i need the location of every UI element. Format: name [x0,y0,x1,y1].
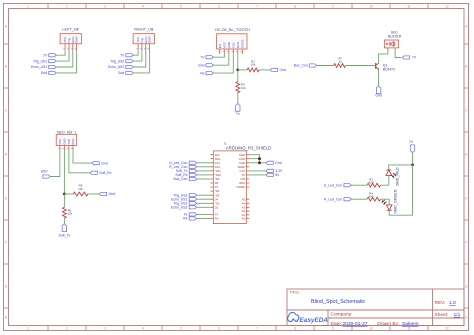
svg-text:TXD: TXD [231,43,235,49]
ARDUINO_R3_SHIELD body [213,151,246,224]
wire NEO pin3 to Soft_Rx [69,150,90,173]
svg-text:2: 2 [66,326,68,330]
net flag Trig_US2 [189,202,196,205]
svg-text:7V: 7V [43,53,48,57]
wire 5V [249,174,266,176]
wire R1 to Gnd flag [259,69,270,71]
net flag Gnd below Q1 [376,86,380,94]
svg-text:Gnd: Gnd [101,161,108,165]
wire Trig_US1 to LEFT_U$ pin2 [56,51,69,61]
bluetooth module HC-05 body [217,34,247,49]
net flag Echo_US2 [126,65,133,68]
svg-text:7V: 7V [412,56,417,60]
svg-text:6: 6 [218,4,220,8]
net flag Echo_US1 [189,198,196,201]
net flag 5V [266,173,273,176]
LEFT_U$ pin numbers [64,47,78,49]
svg-text:B: B [5,65,7,69]
svg-text:SMD_GREEN: SMD_GREEN [394,189,398,213]
svg-text:12: 12 [445,326,449,330]
svg-text:SMD_RED: SMD_RED [395,167,399,186]
wire HC-05 pin5 to node [237,54,239,70]
svg-text:1: 1 [27,4,29,8]
wire Echo_US2 to RIGHT_U$ pin3 [133,51,146,67]
svg-text:VCC: VCC [222,42,226,48]
svg-text:GND: GND [227,42,231,48]
svg-text:1/1: 1/1 [454,312,461,318]
wire Echo_US2 to D2 [197,206,211,208]
RIGHT_U$ pin names [136,36,152,43]
wire R_Led_Con to R4 [351,198,367,200]
svg-text:2020-01-27: 2020-01-27 [343,321,368,327]
ultrasonic module LEFT_U$ body [60,34,81,44]
wire NEO pin2 down to node [63,150,65,194]
net flag Soft_Rx [90,171,97,174]
resistor R5 [73,192,88,196]
svg-text:Gnd: Gnd [375,94,382,98]
frame ticks top [48,4,428,9]
svg-text:5: 5 [180,326,182,330]
svg-text:LEFT_U$: LEFT_U$ [62,28,79,32]
LEFT_U$ pin names [63,36,79,43]
net flag Rx [189,217,196,220]
svg-text:11: 11 [407,4,411,8]
svg-text:1: 1 [27,326,29,330]
wire NEO pin4 to Gnd [73,150,92,163]
svg-text:Buz_Con: Buz_Con [173,177,187,181]
resistor R4 [367,197,380,201]
net flag G_Led_Con [189,161,196,164]
svg-text:Trig_US1: Trig_US1 [33,59,47,63]
net flag Tx [189,213,196,216]
net flag Echo_US2 [189,206,196,209]
wire buzzer pin2 to 7V flag [395,53,401,58]
svg-text:10: 10 [369,326,373,330]
svg-text:RXD: RXD [236,42,240,48]
svg-text:7V: 7V [409,140,414,144]
svg-text:420: 420 [369,180,374,184]
net flag Buz_Con [189,177,196,180]
svg-text:GND: GND [148,37,152,43]
svg-text:IOREF: IOREF [236,185,245,189]
svg-text:Soft_Tx: Soft_Tx [59,234,71,238]
svg-text:8: 8 [294,326,296,330]
LED D1 SMD_RED [386,169,391,171]
svg-text:3: 3 [104,4,106,8]
wire U5V to NEO pin1 [50,150,60,176]
svg-text:U5V: U5V [41,169,48,173]
wire Soft_Tx to D11 [197,170,211,172]
net flag 7V [126,54,133,57]
title block red labels [290,291,449,328]
svg-text:Date:: Date: [331,321,342,327]
svg-text:4: 4 [142,326,144,330]
svg-text:Tx: Tx [236,112,240,116]
svg-text:Gnd: Gnd [118,71,125,75]
svg-text:10k: 10k [251,63,256,67]
svg-text:1.0: 1.0 [449,300,456,306]
wire Gnd to HC-05 pin3 [213,54,229,65]
net flag Echo_US1 [49,65,56,68]
wire Rx to RX [197,218,211,220]
svg-text:A0: A0 [242,217,246,221]
net flag Gnd right of R1 [270,68,277,71]
svg-text:7V: 7V [200,55,205,59]
svg-text:BC547C: BC547C [383,68,396,72]
wire GND1 bus [249,155,259,163]
wire Trig_US2 to RIGHT_U$ pin2 [133,51,142,61]
wire R7 to Q1 base [346,65,376,67]
wire Buz_Con to D9 [197,178,211,180]
resistor R2 [237,70,239,104]
title block blue values [311,299,461,327]
LED1 lead down [388,175,390,185]
svg-text:TITLE:: TITLE: [290,291,300,295]
net flag Gnd arduino [266,161,273,164]
RIGHT_U$ pin numbers [137,47,151,49]
svg-text:Company:: Company: [331,312,353,318]
net flag R_Led_Con led [344,198,351,201]
svg-text:Soft_Rx: Soft_Rx [99,171,111,175]
resistor R3 [367,183,380,187]
wire GND2 [249,158,259,160]
svg-text:RX: RX [215,217,219,221]
svg-text:9: 9 [332,4,334,8]
svg-text:Echo_US1: Echo_US1 [31,65,47,69]
NEO_6M_1 pin numbers [58,147,73,149]
svg-text:D2: D2 [215,205,219,209]
net flag Trig_US1 [49,60,56,63]
NEO_6M_1 pins [60,146,73,151]
net flag 7V [49,54,56,57]
wire Gnd to RIGHT_U$ pin4 [133,51,150,73]
net flag G_Led_Con led [344,184,351,187]
HC-05 pins [220,49,243,54]
wire Q1 emitter to Gnd [378,69,380,86]
LED2 lead and return wire [389,165,412,215]
Arduino right pins [246,155,249,219]
junction GND3 [258,161,261,164]
wire 7V to RIGHT_U$ pin1 [133,51,138,55]
svg-text:F: F [5,241,7,245]
junction node led bus [411,164,414,167]
svg-text:Sheet:: Sheet: [435,312,449,318]
svg-text:10: 10 [369,4,373,8]
net flag Soft_Tx bottom [62,224,66,232]
svg-text:6: 6 [218,326,220,330]
transistor Q1 BC547C [375,63,377,69]
svg-text:Saleem: Saleem [402,321,419,327]
svg-text:Gnd: Gnd [41,71,48,75]
svg-text:1k: 1k [339,60,343,64]
title block border [287,289,464,326]
svg-text:ARDUINO_R3_SHIELD: ARDUINO_R3_SHIELD [226,145,272,150]
wire Gnd to LEFT_U$ pin4 [56,51,77,73]
net flag R_Led_Con [189,165,196,168]
svg-text:GND: GND [62,138,66,144]
RIGHT_U$ pins [138,44,150,52]
buzzer BG1 body [384,40,398,48]
wire R4 to LED2 [381,199,390,205]
svg-text:Drawn By:: Drawn By: [377,321,399,327]
LED D2 SMD_GREEN [386,205,392,210]
svg-text:10k: 10k [68,212,73,216]
wire buzzer pin1 to Q1 collector [379,53,388,64]
svg-text:7: 7 [256,326,258,330]
wire 7V to LEFT_U$ pin1 [56,51,65,55]
Arduino left pin names [215,153,222,221]
svg-text:HC-05_BL_TOOTH: HC-05_BL_TOOTH [215,27,250,32]
svg-text:Gnd: Gnd [109,192,116,196]
wire GND3 to Gnd flag [249,162,266,164]
net flag Gnd [126,71,133,74]
net flag Soft_Rx [189,173,196,176]
svg-text:REV:: REV: [435,300,446,306]
svg-text:Gnd: Gnd [198,63,205,67]
wire Soft_Rx to D10 [197,174,211,176]
svg-text:E: E [465,197,467,201]
svg-text:RXD: RXD [71,139,75,145]
svg-text:E: E [5,197,7,201]
GPS module NEO_6M_1 body [56,134,76,145]
svg-text:F: F [465,241,467,245]
wire Trig_US1 to D5 [197,194,211,196]
svg-text:2: 2 [66,4,68,8]
wire 3.3V [249,170,266,172]
svg-text:7: 7 [256,4,258,8]
wire R_Led_Con to D12 [197,166,211,168]
svg-text:4: 4 [142,4,144,8]
EasyEDA logo [288,312,329,324]
NEO_6M_1 pin names [58,138,75,144]
svg-text:BUZZER: BUZZER [388,34,402,38]
frame ticks right [464,44,469,308]
svg-text:5: 5 [180,4,182,8]
svg-text:EasyEDA: EasyEDA [300,317,329,324]
wire G_Led_Con to D13 [197,162,211,164]
ultrasonic module RIGHT_U$ body [133,34,154,44]
svg-text:B: B [465,65,467,69]
net flag 7V [206,56,213,59]
svg-text:Buz_Con: Buz_Con [294,64,308,68]
net flag U5V [43,175,50,178]
svg-text:Trig_US2: Trig_US2 [110,59,124,63]
svg-text:GND: GND [75,37,79,43]
svg-text:G_Led_Con: G_Led_Con [324,183,342,187]
svg-text:NEO_6M_1: NEO_6M_1 [57,130,76,134]
HC-05 pin names [218,39,245,48]
wire R3 to LED1 [381,184,389,186]
svg-text:RIGHT_U$: RIGHT_U$ [134,28,154,32]
svg-text:10k: 10k [241,86,246,90]
wire R5 to Gnd flag [88,193,99,195]
wire Echo_US1 to LEFT_U$ pin3 [56,51,73,67]
wire Echo_US1 to D4 [197,198,211,200]
svg-text:Gnd: Gnd [280,68,287,72]
net flag 3.3V [266,169,273,172]
resistor R1 [247,68,259,72]
net flag Gnd [92,162,99,165]
frame ticks bottom [48,326,428,331]
wire 7V to HC-05 pin2 [213,54,224,57]
wire Rx to HC-05 pin4 [213,54,233,73]
wire 7V down to node [412,152,414,165]
wire G_Led_Con to R3 [351,184,367,186]
frame ticks left [4,44,9,308]
wire Tx to TX [197,213,211,215]
wire Buz_Con to R7 [317,65,334,67]
svg-text:STATE: STATE [240,39,244,48]
junction node R5/R6 [63,193,66,196]
junction node at pin5 [236,69,239,72]
svg-text:Rx: Rx [183,217,187,221]
svg-text:Blind_Spot_Schematic: Blind_Spot_Schematic [311,299,366,305]
svg-text:Echo_US2: Echo_US2 [171,206,187,210]
LEFT_U$ pins [65,44,77,52]
svg-text:VCC: VCC [58,139,62,145]
wire node to R1 [238,69,247,71]
net flag 7V right [402,56,409,59]
svg-text:7V: 7V [120,53,125,57]
net flag Rx [206,72,213,75]
Arduino left pins [210,155,213,219]
net flag Trig_US2 [126,60,133,63]
svg-text:420: 420 [369,194,374,198]
wire node to LED1 top [389,165,413,170]
svg-text:3: 3 [104,326,106,330]
HC-05 pin numbers [218,50,243,52]
svg-text:10k: 10k [78,187,83,191]
net flag Gnd [49,71,56,74]
svg-text:12: 12 [445,4,449,8]
Arduino right pin names [236,153,245,221]
svg-text:Echo_US2: Echo_US2 [108,65,124,69]
net flag Trig_US1 [189,194,196,197]
net flag Buz_Con [309,64,316,67]
svg-text:R_Led_Con: R_Led_Con [324,197,342,201]
net flag Gnd [206,64,213,67]
svg-text:EN: EN [218,44,222,48]
svg-text:Gnd: Gnd [275,161,282,165]
svg-text:8: 8 [294,4,296,8]
resistor R6 [63,194,65,224]
svg-text:5V: 5V [275,173,280,177]
wire node to R5 [64,193,73,195]
net flag Gnd right of R5 [99,192,106,195]
wire Trig_US2 to D3 [197,202,211,204]
junction GND2 [258,157,261,160]
net flag Tx bottom [236,104,240,112]
svg-text:Rx: Rx [200,71,204,75]
buzzer BG1 pins [388,48,395,53]
net flag Soft_Tx [189,169,196,172]
resistor R7 [334,64,346,68]
